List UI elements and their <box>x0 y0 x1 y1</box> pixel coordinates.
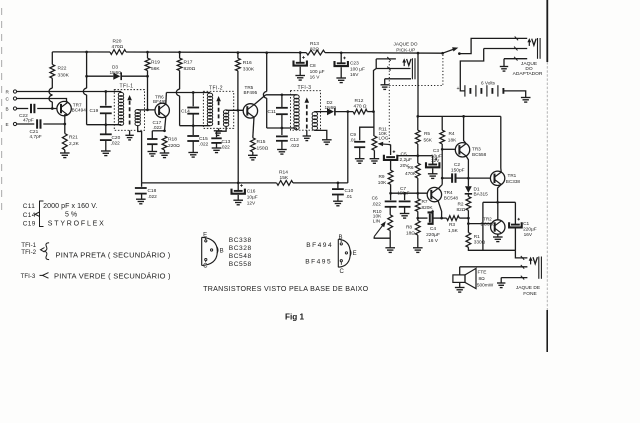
svg-text:TR4: TR4 <box>444 190 453 195</box>
node base rail/R7 <box>416 192 419 195</box>
svg-text:C8: C8 <box>310 63 316 69</box>
wire R3 right <box>459 217 468 219</box>
svg-text:15K: 15K <box>280 175 289 181</box>
svg-text:B: B <box>6 106 9 111</box>
svg-text:FTE: FTE <box>478 270 487 276</box>
svg-text:.022: .022 <box>148 194 158 200</box>
ground pickup jack <box>381 84 389 86</box>
wire switch to adaptador <box>459 38 527 53</box>
svg-text:C: C <box>340 269 345 275</box>
node C2 left <box>441 177 444 180</box>
wire E line left <box>17 123 35 125</box>
wire R11 wiper to C5 <box>390 145 392 155</box>
node output/TR1 <box>496 201 499 204</box>
ground C16 <box>233 199 243 201</box>
wire battery left <box>460 88 465 91</box>
svg-text:16V: 16V <box>524 232 533 238</box>
svg-text:BC558: BC558 <box>229 261 252 268</box>
svg-text:JAQUE DO: JAQUE DO <box>394 41 418 46</box>
ground C18 <box>136 198 146 200</box>
node R19/D3 <box>146 75 149 78</box>
battery 6V <box>464 85 466 96</box>
svg-text:8Ω: 8Ω <box>479 276 486 282</box>
svg-text:R16: R16 <box>243 60 252 66</box>
resistor R9 <box>388 170 393 184</box>
svg-text:330K: 330K <box>58 73 70 79</box>
svg-text:.022: .022 <box>372 201 382 207</box>
node rail/D3 <box>85 51 88 54</box>
pinout BF pin E <box>345 252 347 254</box>
svg-text:BC548: BC548 <box>444 196 459 201</box>
capacitor C1 <box>514 202 516 224</box>
speaker FTE <box>453 275 465 283</box>
svg-text:C14: C14 <box>23 212 36 219</box>
wire C6 to R10 <box>389 207 391 215</box>
wire TR1 base line <box>468 177 490 179</box>
wire TR4 base rail <box>391 192 428 194</box>
svg-text:18Ω: 18Ω <box>406 230 415 236</box>
wire tank2 bottom rail <box>180 125 210 127</box>
wire C20 to ground <box>105 140 107 151</box>
svg-text:C1: C1 <box>523 221 529 227</box>
node D3 anode <box>85 75 88 78</box>
svg-text:R1: R1 <box>474 234 480 240</box>
wiper R11 <box>381 143 390 146</box>
wire D3 line <box>87 75 114 77</box>
ground battery <box>521 97 531 99</box>
wire R5 bottom <box>417 144 419 156</box>
node R5/R6 <box>416 154 419 157</box>
resistor R13 <box>306 50 325 55</box>
node D2/R12 junction <box>346 110 349 113</box>
svg-text:2000 pF x 160 V.: 2000 pF x 160 V. <box>43 203 97 210</box>
resistor R5 <box>417 116 419 130</box>
svg-text:TFI-1: TFI-1 <box>120 84 134 90</box>
svg-text:R7: R7 <box>422 199 428 205</box>
ground C20 <box>101 150 111 152</box>
svg-text:BF495: BF495 <box>153 99 167 104</box>
wire fone sleeve contact <box>501 277 527 279</box>
wire C16 to ground <box>237 195 239 200</box>
svg-text:TFI-3: TFI-3 <box>21 273 36 280</box>
resistor R2 <box>466 197 471 211</box>
svg-text:330K: 330K <box>243 66 255 72</box>
wire R12 to pot <box>373 112 375 137</box>
resistor R18 <box>162 136 167 150</box>
wire TR3 emitter <box>464 116 467 143</box>
svg-text:47pF: 47pF <box>23 118 34 124</box>
node TR6 base <box>146 109 149 112</box>
wire C9 branch <box>360 127 374 140</box>
capacitor C21 <box>36 119 38 128</box>
wire C line to TR7 collector <box>17 99 67 103</box>
capacitor C23 <box>340 53 342 63</box>
transformer TFI-3 box <box>291 91 321 131</box>
svg-text:BC338: BC338 <box>229 237 252 244</box>
inductor TFI-2 primary <box>207 93 212 97</box>
svg-text:LIN: LIN <box>373 218 381 224</box>
wire hop R22 over C line <box>49 95 52 102</box>
resistor R3 <box>442 217 447 219</box>
svg-text:56K: 56K <box>424 137 433 143</box>
svg-text:C13: C13 <box>222 139 231 145</box>
wire TR1 emitter <box>498 184 502 202</box>
wire C8 to ground <box>299 67 301 76</box>
svg-text:C18: C18 <box>148 188 157 194</box>
svg-text:DO: DO <box>525 66 532 72</box>
wire pickup sleeve down <box>384 79 386 85</box>
wire C1 bottom <box>514 228 516 250</box>
capacitor C11 <box>281 95 283 108</box>
wire TR7 emitter lead <box>65 115 68 134</box>
wire C12 to ground <box>281 141 283 150</box>
wire C10 to ground <box>337 195 339 202</box>
wire C3 branch <box>418 155 433 157</box>
svg-text:R12: R12 <box>355 98 364 104</box>
resistor R12 <box>353 109 367 114</box>
wire R22 bottom <box>51 102 53 109</box>
wire speaker top <box>459 267 461 275</box>
node TR3 emitter rail <box>462 115 465 118</box>
terminal R <box>13 90 16 93</box>
svg-text:ADAPTADOR: ADAPTADOR <box>513 71 543 77</box>
transistor TR4 <box>427 187 441 201</box>
svg-text:.022: .022 <box>221 144 231 150</box>
node TR5 base <box>237 109 240 112</box>
svg-text:C2: C2 <box>454 162 460 168</box>
svg-text:100 µF: 100 µF <box>310 69 325 75</box>
wire supply rail 3 <box>325 52 443 55</box>
wire R2 bottom <box>467 210 469 218</box>
wire D3 branch upper <box>86 52 88 76</box>
capacitor C2 <box>442 177 452 179</box>
wire C2 vertical lower <box>441 178 443 185</box>
svg-text:BF495: BF495 <box>244 90 258 95</box>
ground C8 <box>295 75 305 77</box>
svg-text:B: B <box>339 235 343 241</box>
resistor R17 <box>177 58 182 70</box>
wire D1 top lead <box>467 178 469 186</box>
wire tank3 bottom rail <box>267 127 297 129</box>
ground C9 <box>355 158 365 160</box>
svg-text:C: C <box>203 264 208 270</box>
node R2/R3/R1 <box>467 217 470 220</box>
svg-text:D1: D1 <box>474 187 480 193</box>
svg-text:BC548: BC548 <box>229 253 252 260</box>
node rail/R17 <box>178 51 181 54</box>
svg-text:12V: 12V <box>431 158 440 164</box>
wire B line left <box>17 108 29 110</box>
resistor R1 <box>466 233 471 248</box>
wire R4 bottom <box>441 144 443 149</box>
svg-text:E: E <box>353 251 357 257</box>
svg-text:820Ω: 820Ω <box>184 66 196 72</box>
wire R21 to ground <box>64 150 66 153</box>
svg-text:R17: R17 <box>184 60 193 66</box>
capacitor C22 <box>30 104 32 113</box>
svg-text:C9: C9 <box>350 132 356 138</box>
svg-text:BC558: BC558 <box>472 152 487 157</box>
node switch contact <box>458 52 461 55</box>
ground R21 <box>60 152 70 154</box>
node rail/C23 <box>340 51 343 54</box>
wire pickup middle contact <box>376 68 410 70</box>
svg-text:C19: C19 <box>90 108 99 114</box>
node TR2 base <box>467 222 470 225</box>
svg-text:TFI-2: TFI-2 <box>21 249 36 256</box>
capacitor C17 <box>151 131 153 139</box>
node base rail/R9 <box>389 192 392 195</box>
svg-text:220Ω: 220Ω <box>168 143 180 149</box>
svg-text:R22: R22 <box>58 66 67 72</box>
contact tick pickup top <box>387 57 390 61</box>
transistor TR1 <box>490 171 504 185</box>
wire R18 to ground <box>164 150 166 153</box>
ground C23 <box>336 77 346 79</box>
capacitor C14 <box>192 93 194 107</box>
ground TFI-3 secondary <box>322 139 332 141</box>
svg-text:Fig 1: Fig 1 <box>285 312 305 321</box>
svg-text:TFI-2: TFI-2 <box>209 85 223 91</box>
wire adaptador sleeve down <box>503 59 505 67</box>
node rail/amp feed <box>417 52 420 55</box>
wire amp feed <box>417 53 419 116</box>
svg-text:PICK-UP: PICK-UP <box>396 47 415 52</box>
wire to TR2 base node <box>467 218 469 224</box>
resistor R6 <box>417 156 419 164</box>
wire hop R22 over R line <box>49 88 52 95</box>
wire output left drop <box>482 202 484 250</box>
wire R17 down upper <box>179 71 181 90</box>
wire C9 to ground <box>359 147 361 158</box>
transformer TFI-2 box <box>203 91 233 128</box>
wire TR4 emitter <box>438 201 442 219</box>
node C11 top <box>281 93 284 96</box>
wire fone middle contact <box>460 266 528 268</box>
svg-text:BF494: BF494 <box>306 242 333 249</box>
transistor TR6 <box>155 103 169 117</box>
capacitor C13 <box>211 137 221 139</box>
svg-text:56K: 56K <box>151 66 160 72</box>
wire TR5 base AGC tap <box>237 110 239 183</box>
inductor TFI-2 secondary <box>223 110 228 114</box>
svg-text:1N60: 1N60 <box>110 70 122 76</box>
wire supply rail 2 <box>126 51 306 54</box>
svg-text:C14: C14 <box>181 109 190 115</box>
node TR4 emitter/R3 <box>440 217 443 220</box>
svg-text:C16: C16 <box>247 189 256 195</box>
wire C4 right <box>433 217 442 219</box>
capacitor C7 <box>404 193 406 200</box>
svg-text:.022: .022 <box>290 143 300 149</box>
wire TR6 collector <box>165 93 168 105</box>
wire TFI-1 sec bottom to AGC <box>138 125 142 183</box>
node rail/R16 <box>237 51 240 54</box>
node C14 bottom <box>192 124 195 127</box>
svg-text:10K: 10K <box>378 180 387 186</box>
svg-text:.022: .022 <box>153 125 163 131</box>
contact tick adaptador middle <box>514 47 517 51</box>
ground R18 <box>160 152 170 154</box>
svg-text:R21: R21 <box>69 135 78 141</box>
resistor R16 <box>236 58 241 71</box>
ground adaptador jack <box>500 66 508 68</box>
wire hop feed over tank3 top <box>263 92 266 99</box>
wire TFI-2 sec bottom to C13 <box>217 126 227 137</box>
svg-text:220µF: 220µF <box>523 226 537 232</box>
wire TFI-1 core lead <box>129 130 131 135</box>
pinout BC pin C <box>205 259 207 261</box>
terminal B <box>13 107 16 110</box>
pinout BC pin E <box>205 240 207 242</box>
svg-text:C6: C6 <box>372 196 378 202</box>
dotted link pickup to switch h <box>389 85 443 87</box>
wire C7 to ground <box>404 207 406 214</box>
wire R22 mid <box>51 94 53 96</box>
wire R8 to ground <box>417 235 419 248</box>
wire AGC rail <box>142 182 277 184</box>
svg-text:R15: R15 <box>257 139 266 145</box>
svg-text:D3: D3 <box>112 65 118 71</box>
ground speaker <box>455 287 465 289</box>
svg-text:C10: C10 <box>345 188 354 194</box>
node R4/TR3 base <box>441 148 444 151</box>
resistor R7 <box>417 193 419 199</box>
wire tank1 bottom rail <box>87 124 121 126</box>
wire R22 bottom upper <box>51 78 53 88</box>
svg-text:TRANSISTORES VISTO PELA BAS: TRANSISTORES VISTO PELA BASE DE BAIXO <box>203 285 369 293</box>
transistor TR7 <box>57 101 71 115</box>
wire tank3 top rail <box>266 94 297 96</box>
pinout BF pin C <box>340 260 342 262</box>
svg-text:82Ω: 82Ω <box>457 207 466 213</box>
resistor R20 <box>110 50 126 55</box>
resistor R8 <box>417 218 419 220</box>
wire output to fone <box>515 250 527 258</box>
svg-text:FONE: FONE <box>523 291 537 297</box>
potentiometer R11 <box>372 136 377 150</box>
wire R6 bottom <box>417 178 419 193</box>
capacitor C15 <box>192 126 194 135</box>
svg-text:16 V: 16 V <box>310 75 321 81</box>
capacitor C6 <box>390 193 392 200</box>
svg-text:R14: R14 <box>279 170 288 176</box>
svg-text:C19: C19 <box>23 221 36 228</box>
brace pinta preta <box>45 243 50 260</box>
diode D3 <box>113 73 120 80</box>
svg-text:2,2µF: 2,2µF <box>400 157 413 163</box>
wire R7 bottom <box>417 211 419 218</box>
ground TFI-1 core <box>125 134 133 136</box>
wire R10 bottom <box>389 231 391 248</box>
wire R1 top <box>467 224 469 233</box>
pinout BF case <box>338 239 350 267</box>
capacitor C9 <box>354 141 365 143</box>
inductor TFI-1 primary <box>118 92 123 96</box>
scan edge left <box>1 8 3 212</box>
ground TR2 <box>493 236 503 238</box>
svg-text:BC494: BC494 <box>72 108 87 113</box>
wire to TR4 collector <box>438 185 442 189</box>
node amp rail/R5 <box>416 115 419 118</box>
svg-text:STYROFLEX: STYROFLEX <box>48 220 106 227</box>
wire R19 bottom <box>147 71 149 77</box>
svg-text:150Ω: 150Ω <box>257 145 269 151</box>
core arrow TFI-1 <box>129 99 131 124</box>
wire C5 top to R5/R6 <box>397 155 418 157</box>
jack adaptador plug <box>528 41 530 46</box>
wire AGC riser <box>347 112 349 183</box>
ground C17 <box>148 151 158 153</box>
svg-text:R20: R20 <box>113 38 122 44</box>
contact tick fone sleeve <box>521 276 524 280</box>
svg-text:R2: R2 <box>458 202 464 208</box>
wire R4-C2 vertical <box>441 149 443 178</box>
wire C17 to ground <box>151 144 153 152</box>
wire R10 wiper link <box>374 237 390 239</box>
wire E line right <box>43 123 65 125</box>
wire C13 to ground <box>216 143 218 148</box>
svg-text:R8: R8 <box>406 225 412 231</box>
contact tick pickup middle <box>387 67 390 71</box>
node TR7 base <box>51 107 54 110</box>
wire TR5 emitter <box>253 117 254 138</box>
terminal C <box>13 97 16 100</box>
wire C19 top lead <box>105 92 107 106</box>
wire D3 branch mid <box>86 76 88 88</box>
wire R9 bottom <box>390 184 392 193</box>
svg-text:220µF: 220µF <box>426 232 440 238</box>
resistor R21 <box>62 134 67 150</box>
wire TR7 collector lead <box>67 101 68 102</box>
transistor TR5 <box>243 104 257 118</box>
svg-text:C11: C11 <box>268 109 277 115</box>
capacitor C10 <box>337 183 339 188</box>
wire D2 to R12 <box>335 111 353 113</box>
contact tick fone tip <box>521 256 524 260</box>
capacitor C19 <box>100 106 112 108</box>
svg-text:R18: R18 <box>168 137 177 143</box>
svg-text:BC338: BC338 <box>506 179 521 184</box>
capacitor C16 <box>237 183 239 191</box>
jack fone plug <box>530 259 532 264</box>
node C19 top <box>104 90 107 93</box>
page edge line <box>546 0 548 62</box>
wire AGC rail right <box>293 182 348 184</box>
svg-text:10µF: 10µF <box>247 195 258 201</box>
svg-text:2,2K: 2,2K <box>69 141 80 147</box>
terminal E <box>13 122 16 125</box>
wire pickup contact link <box>375 59 377 69</box>
node TR7 emitter/E <box>63 123 66 126</box>
wire pickup top contact <box>376 58 396 60</box>
svg-text:LOG: LOG <box>379 136 389 142</box>
wire TFI-3 sec bottom <box>315 130 327 140</box>
wire R11 to ground <box>373 150 375 158</box>
wire R16 bottom to TR5 base <box>237 71 239 111</box>
svg-text:5 %: 5 % <box>65 212 77 219</box>
svg-text:R3: R3 <box>449 222 455 228</box>
wire R17 to tank2 bottom <box>179 96 181 126</box>
ground C15 <box>188 152 198 154</box>
svg-text:+: + <box>457 86 460 92</box>
transistor TR2 <box>491 220 505 234</box>
wire C3 to ground <box>432 168 434 173</box>
contact tick fone middle <box>521 265 524 269</box>
dotted link switch v <box>442 55 444 86</box>
wire B line right <box>37 108 56 110</box>
wire hop R17 over tank2 top <box>176 89 179 96</box>
